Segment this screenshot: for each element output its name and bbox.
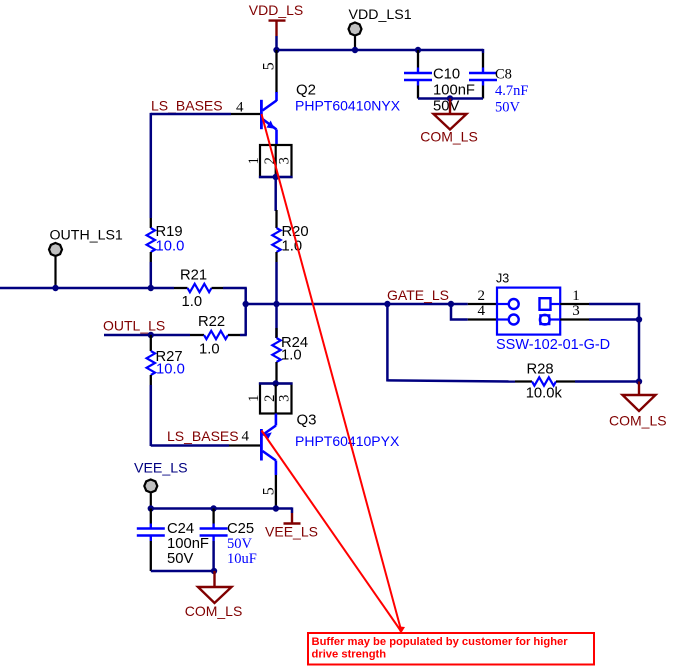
- svg-text:R22: R22: [198, 314, 225, 330]
- wire R28 row left: [387, 380, 515, 381]
- wire Q2 emitters down: [274, 177, 277, 211]
- svg-text:50V: 50V: [227, 536, 253, 552]
- svg-text:VDD_LS: VDD_LS: [249, 2, 303, 18]
- callout arrowhead: [397, 626, 405, 633]
- wire R19 to OUTH row: [150, 262, 153, 288]
- node junction top rail / VDD_LS1: [352, 47, 358, 53]
- Q2 emitter box pins 2,3: [246, 145, 293, 177]
- wire pin3 to right vertical: [589, 318, 639, 321]
- wire R20 to bus: [275, 262, 278, 304]
- resistor R24: [272, 304, 308, 384]
- svg-text:LS_BASES: LS_BASES: [151, 98, 223, 114]
- svg-text:C8: C8: [495, 67, 512, 83]
- callout arrow line from Q2: [262, 114, 401, 629]
- wire VEE row: [151, 507, 292, 510]
- svg-text:5: 5: [261, 62, 278, 70]
- ground COM_LS (R28): [609, 382, 667, 429]
- svg-text:100nF: 100nF: [433, 83, 475, 99]
- svg-text:LS_BASES: LS_BASES: [167, 428, 239, 444]
- power VEE_LS (bar): [265, 507, 318, 539]
- wire GATE to R28: [386, 304, 389, 382]
- capacitor C8: [469, 53, 528, 116]
- resistor R20: [272, 210, 308, 262]
- svg-text:C10: C10: [433, 67, 460, 83]
- svg-text:4.7nF: 4.7nF: [495, 83, 528, 99]
- svg-text:R21: R21: [180, 268, 207, 284]
- svg-text:1.0: 1.0: [281, 348, 302, 364]
- svg-text:C25: C25: [227, 521, 254, 537]
- transistor Q2 PHPT60410NYX: [236, 50, 401, 145]
- svg-text:10.0: 10.0: [156, 239, 185, 255]
- node junction VEE port / C24: [148, 505, 154, 511]
- svg-text:OUTL_LS: OUTL_LS: [103, 318, 165, 334]
- svg-text:Q2: Q2: [296, 82, 316, 99]
- wire R22 to corner: [240, 334, 247, 337]
- svg-text:PHPT60410NYX: PHPT60410NYX: [295, 98, 401, 114]
- pin Q3 base: [229, 444, 260, 446]
- svg-text:3: 3: [277, 395, 293, 402]
- resistor R22: [190, 314, 240, 358]
- transistor Q3 PHPT60410PYX: [242, 412, 400, 496]
- wire OUTH row: [0, 287, 174, 290]
- wire R28 to right vertical: [575, 380, 639, 383]
- resistor R21: [174, 268, 223, 310]
- svg-text:VEE_LS: VEE_LS: [265, 524, 318, 540]
- node junction OUTL / R27: [148, 332, 154, 338]
- svg-text:10.0k: 10.0k: [526, 386, 563, 402]
- node junction bus/R21R22: [243, 301, 249, 307]
- svg-text:R19: R19: [156, 224, 183, 240]
- svg-text:4: 4: [242, 429, 250, 445]
- node junction bus/R28: [384, 301, 390, 307]
- power VDD_LS: [249, 2, 303, 36]
- svg-text:C24: C24: [167, 521, 194, 537]
- resistor R19: [147, 218, 185, 262]
- pin Q3 collector: [275, 475, 277, 509]
- node junction bottom / ground: [211, 568, 217, 574]
- node junction pin1/pin3: [636, 316, 642, 322]
- ground COM_LS (C24 C25): [185, 571, 243, 619]
- resistor R27: [147, 335, 185, 385]
- svg-text:3: 3: [572, 303, 580, 319]
- svg-text:100nF: 100nF: [167, 536, 209, 552]
- callout arrow line from Q3: [262, 431, 400, 630]
- wire OUTL row: [104, 334, 190, 337]
- capacitor C24: [137, 509, 209, 572]
- Q3 emitter box pins 2,3: [246, 384, 293, 414]
- wire vertical R21-R22 join: [244, 288, 247, 335]
- capacitor C25: [200, 509, 257, 572]
- node junction C25: [210, 505, 216, 511]
- node junction Q3 collector: [273, 505, 279, 511]
- callout box: [308, 633, 594, 665]
- wire R21 to corner: [223, 287, 247, 290]
- svg-text:GATE_LS: GATE_LS: [387, 287, 449, 303]
- svg-text:2: 2: [477, 288, 485, 304]
- wire caps bottom (C24,C25): [151, 570, 216, 573]
- wire caps bottom: [418, 97, 483, 100]
- svg-text:3: 3: [277, 157, 293, 164]
- svg-text:VEE_LS: VEE_LS: [134, 461, 188, 477]
- svg-text:SSW-102-01-G-D: SSW-102-01-G-D: [496, 337, 610, 353]
- svg-text:drive strength: drive strength: [312, 649, 387, 661]
- node junction OUTH port: [52, 285, 58, 291]
- pin J3 pin3 wire: [560, 318, 589, 320]
- node junction top rail / C10: [415, 47, 421, 53]
- port VDD_LS1: [349, 7, 412, 50]
- svg-text:OUTH_LS1: OUTH_LS1: [50, 228, 123, 244]
- resistor R28: [515, 362, 575, 402]
- svg-text:4: 4: [477, 303, 485, 319]
- node junction OUTH / R19: [148, 285, 154, 291]
- svg-text:Buffer may be populated by cus: Buffer may be populated by customer for …: [312, 636, 569, 648]
- svg-text:1.0: 1.0: [199, 342, 220, 358]
- ground COM_LS (caps): [420, 99, 478, 145]
- port VEE_LS (left): [134, 461, 188, 509]
- pin Q2 base: [231, 113, 260, 115]
- svg-text:10.0: 10.0: [156, 361, 185, 377]
- node junction R28/ground: [636, 378, 642, 384]
- wire main bus: [246, 303, 468, 306]
- svg-text:VDD_LS1: VDD_LS1: [349, 7, 412, 23]
- wire pin1 to right vertical: [589, 304, 639, 320]
- svg-text:50V: 50V: [433, 99, 459, 115]
- svg-text:1: 1: [246, 395, 262, 402]
- node junction bus/J3pin4: [448, 301, 454, 307]
- svg-text:R28: R28: [527, 362, 554, 378]
- svg-text:50V: 50V: [495, 100, 521, 116]
- wire J3 pin4 branch: [451, 304, 468, 320]
- pin J3 pin4: [468, 318, 497, 320]
- capacitor C10: [404, 50, 475, 115]
- svg-text:Q3: Q3: [297, 412, 317, 429]
- wire VDD stem: [275, 36, 278, 50]
- svg-text:1: 1: [246, 157, 262, 164]
- wire Q2 base: [151, 113, 231, 116]
- svg-text:50V: 50V: [167, 551, 193, 567]
- svg-text:1.0: 1.0: [182, 294, 203, 310]
- wire R27 to Q3 base row: [150, 385, 153, 446]
- connector J3 SSW-102-01-G-D: [477, 272, 610, 353]
- port OUTH_LS1: [49, 228, 123, 289]
- wire Q3 base: [151, 444, 229, 447]
- svg-text:1: 1: [572, 288, 580, 304]
- node junction top rail / VDD: [273, 47, 279, 53]
- wire left vertical upper: [150, 113, 153, 218]
- node junction bus/R20R24: [273, 301, 279, 307]
- svg-text:COM_LS: COM_LS: [609, 413, 667, 429]
- wire C8 right leg corner: [482, 49, 485, 53]
- node junction Q2 emitters: [273, 174, 279, 180]
- svg-text:J3: J3: [496, 272, 509, 286]
- svg-text:10uF: 10uF: [227, 551, 257, 567]
- pin J3 pin1 wire: [560, 303, 589, 305]
- svg-text:COM_LS: COM_LS: [420, 129, 478, 145]
- node junction caps / ground: [447, 95, 453, 101]
- wire top rail: [276, 49, 484, 52]
- node junction Q3 box top: [273, 380, 279, 386]
- svg-text:COM_LS: COM_LS: [185, 603, 243, 619]
- wire bus to J3 pin2: [468, 303, 497, 305]
- wire right vertical to R28 row: [638, 320, 641, 382]
